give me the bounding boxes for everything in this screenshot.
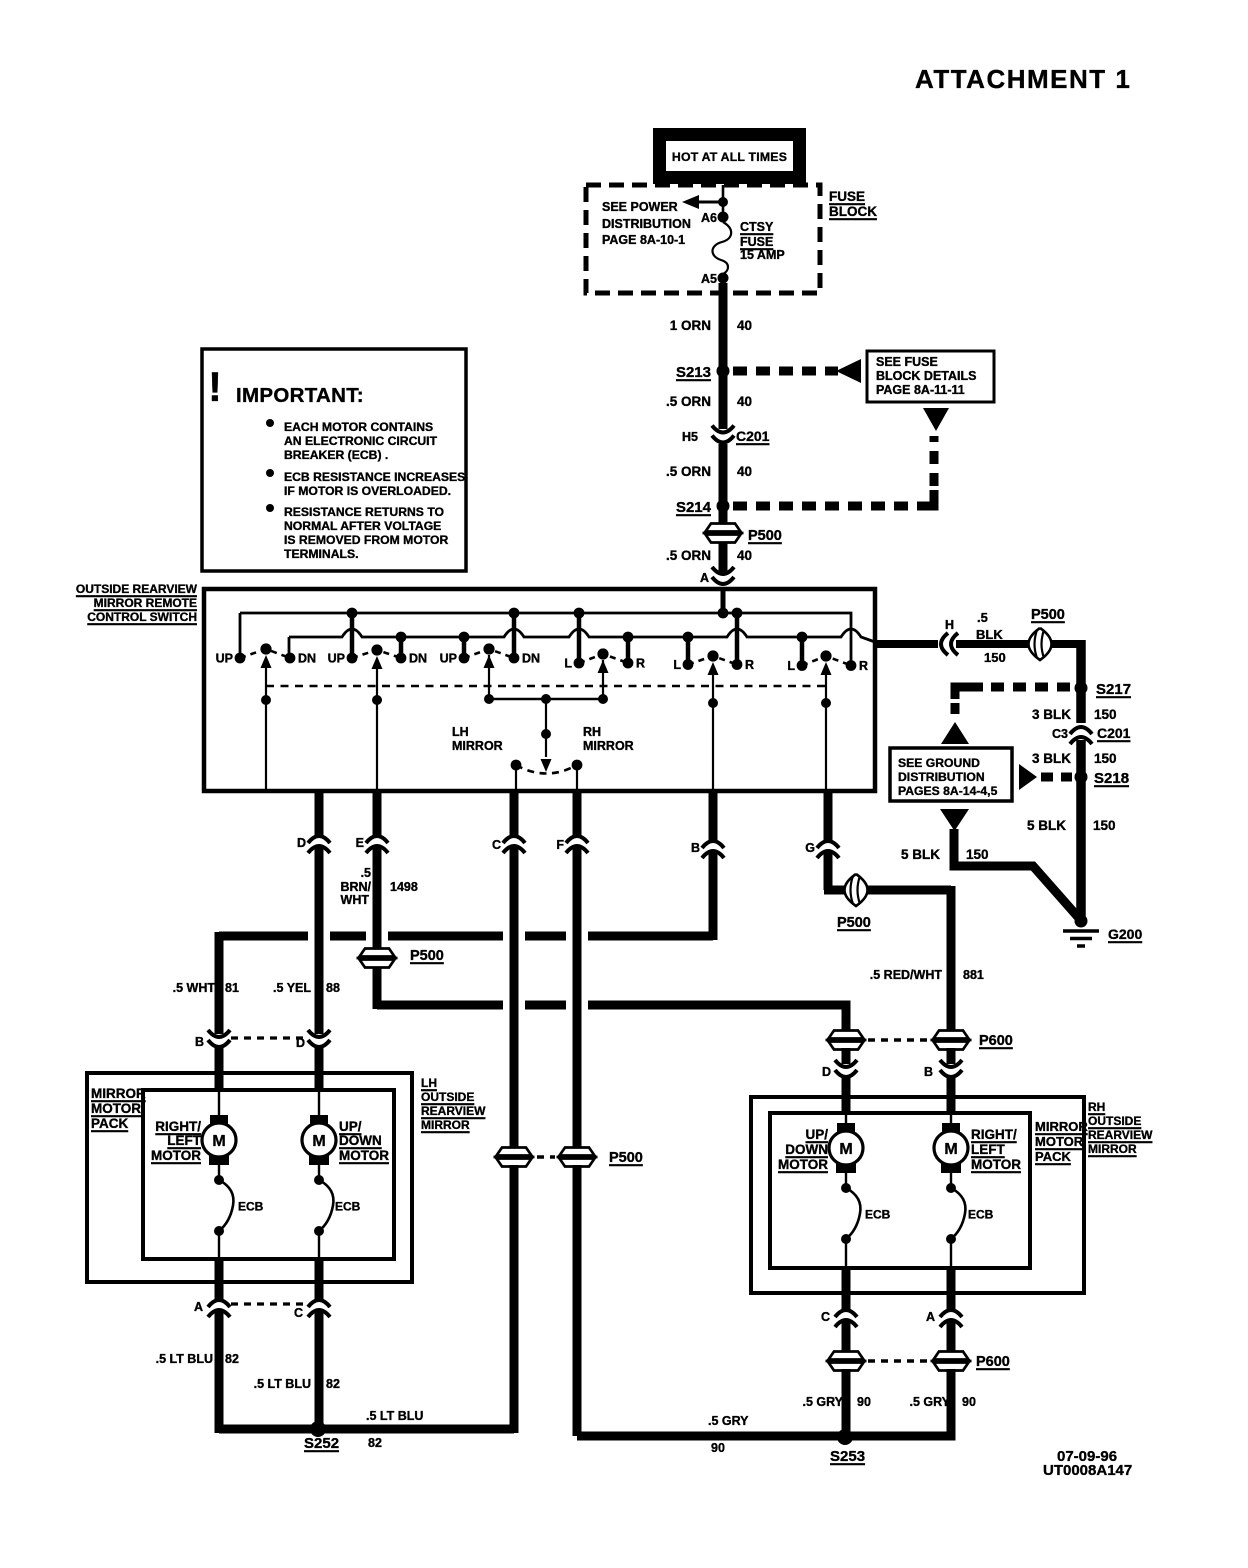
svg-text:DN: DN [298, 652, 316, 666]
svg-text:G: G [805, 841, 815, 855]
svg-text:WHT: WHT [341, 893, 370, 907]
svg-text:BLOCK: BLOCK [829, 204, 877, 219]
svg-text:RH: RH [1088, 1100, 1105, 1114]
svg-text:SEE GROUND: SEE GROUND [898, 756, 980, 770]
svg-text:REARVIEW: REARVIEW [421, 1104, 486, 1118]
svg-text:MIRROR REMOTE: MIRROR REMOTE [94, 596, 197, 610]
svg-text:.5 LT BLU: .5 LT BLU [254, 1377, 311, 1391]
svg-text:MOTOR: MOTOR [151, 1148, 201, 1163]
svg-text:PACK: PACK [91, 1116, 129, 1131]
svg-text:G200: G200 [1108, 926, 1142, 942]
svg-text:C3: C3 [1052, 727, 1068, 741]
svg-text:150: 150 [966, 847, 989, 862]
svg-text:150: 150 [984, 650, 1006, 665]
svg-text:C: C [492, 838, 501, 852]
svg-text:MIRROR: MIRROR [91, 1086, 146, 1101]
svg-text:BLOCK DETAILS: BLOCK DETAILS [876, 369, 976, 383]
svg-text:UP: UP [440, 652, 457, 666]
svg-text:R: R [636, 657, 645, 671]
svg-text:PAGE 8A-11-11: PAGE 8A-11-11 [876, 383, 965, 397]
svg-text:S213: S213 [676, 364, 711, 381]
svg-text:MIRROR: MIRROR [421, 1118, 470, 1132]
svg-text:S218: S218 [1094, 770, 1129, 787]
svg-text:UP: UP [216, 652, 233, 666]
svg-text:40: 40 [737, 464, 752, 479]
svg-text:ECB: ECB [865, 1208, 891, 1222]
svg-text:SEE FUSE: SEE FUSE [876, 355, 938, 369]
svg-text:M: M [212, 1133, 225, 1150]
svg-text:LH: LH [452, 725, 469, 739]
svg-text:BREAKER (ECB) .: BREAKER (ECB) . [284, 448, 388, 462]
svg-text:S217: S217 [1096, 681, 1131, 698]
svg-text:40: 40 [737, 318, 752, 333]
svg-text:A: A [926, 1310, 935, 1324]
svg-text:S253: S253 [830, 1448, 865, 1465]
svg-text:MOTOR: MOTOR [778, 1157, 828, 1172]
svg-text:M: M [839, 1141, 852, 1158]
svg-text:881: 881 [963, 968, 984, 982]
svg-text:ECB RESISTANCE INCREASES: ECB RESISTANCE INCREASES [284, 470, 465, 484]
svg-text:81: 81 [225, 981, 239, 995]
svg-text:M: M [944, 1141, 957, 1158]
svg-text:B: B [691, 841, 700, 855]
svg-text:H: H [945, 618, 954, 632]
svg-text:S252: S252 [304, 1435, 339, 1452]
svg-text:UP: UP [328, 652, 345, 666]
svg-text:UP/: UP/ [805, 1127, 828, 1142]
svg-text:.5 YEL: .5 YEL [273, 981, 311, 995]
svg-text:P600: P600 [976, 1354, 1010, 1370]
svg-text:5 BLK: 5 BLK [901, 847, 940, 862]
svg-text:.5 LT BLU: .5 LT BLU [366, 1409, 423, 1423]
svg-text:C201: C201 [1097, 725, 1131, 741]
svg-text:REARVIEW: REARVIEW [1088, 1128, 1153, 1142]
svg-text:82: 82 [326, 1377, 340, 1391]
svg-text:L: L [564, 657, 572, 671]
svg-text:P500: P500 [748, 528, 782, 544]
svg-text:IS REMOVED FROM MOTOR: IS REMOVED FROM MOTOR [284, 533, 449, 547]
svg-text:BRN/: BRN/ [340, 880, 371, 894]
svg-text:FUSE: FUSE [829, 189, 865, 204]
svg-text:ECB: ECB [968, 1208, 994, 1222]
svg-text:A5: A5 [701, 272, 717, 286]
svg-text:40: 40 [737, 548, 752, 563]
svg-text:NORMAL AFTER VOLTAGE: NORMAL AFTER VOLTAGE [284, 519, 441, 533]
svg-text:OUTSIDE REARVIEW: OUTSIDE REARVIEW [76, 582, 198, 596]
svg-text:MOTOR: MOTOR [339, 1148, 389, 1163]
svg-text:PAGE 8A-10-1: PAGE 8A-10-1 [602, 233, 685, 247]
svg-text:MIRROR: MIRROR [1088, 1142, 1137, 1156]
svg-text:5 BLK: 5 BLK [1027, 818, 1066, 833]
svg-text:150: 150 [1094, 751, 1117, 766]
svg-text:BLK: BLK [976, 627, 1003, 642]
svg-text:B: B [195, 1035, 204, 1049]
svg-text:R: R [859, 659, 868, 673]
svg-text:150: 150 [1093, 818, 1116, 833]
svg-text:.5: .5 [977, 610, 988, 625]
svg-text:C201: C201 [736, 428, 770, 444]
svg-text:C: C [294, 1306, 303, 1320]
svg-text:90: 90 [857, 1395, 871, 1409]
svg-text:S214: S214 [676, 499, 712, 516]
svg-text:FUSE: FUSE [740, 235, 773, 249]
svg-text:.5 GRY: .5 GRY [909, 1395, 950, 1409]
svg-text:DN: DN [409, 652, 427, 666]
svg-text:R: R [745, 658, 754, 672]
svg-text:90: 90 [962, 1395, 976, 1409]
svg-text:A6: A6 [701, 211, 717, 225]
svg-text:SEE POWER: SEE POWER [602, 200, 678, 214]
svg-text:DISTRIBUTION: DISTRIBUTION [602, 217, 691, 231]
svg-text:.5: .5 [361, 866, 371, 880]
svg-text:P500: P500 [837, 915, 871, 931]
svg-text:RESISTANCE RETURNS TO: RESISTANCE RETURNS TO [284, 505, 444, 519]
svg-text:MOTOR: MOTOR [971, 1157, 1021, 1172]
svg-text:DOWN: DOWN [339, 1133, 382, 1148]
svg-text:E: E [356, 836, 364, 850]
svg-text:DISTRIBUTION: DISTRIBUTION [898, 770, 985, 784]
svg-text:DOWN: DOWN [785, 1142, 828, 1157]
svg-text:ECB: ECB [335, 1200, 361, 1214]
svg-text:D: D [297, 836, 306, 850]
svg-text:CTSY: CTSY [740, 220, 774, 234]
svg-text:A: A [194, 1300, 203, 1314]
svg-text:!: ! [208, 363, 222, 410]
svg-text:15 AMP: 15 AMP [740, 248, 785, 262]
svg-text:1 ORN: 1 ORN [670, 318, 711, 333]
svg-text:PAGES 8A-14-4,5: PAGES 8A-14-4,5 [898, 784, 998, 798]
svg-text:ECB: ECB [238, 1200, 264, 1214]
svg-text:3 BLK: 3 BLK [1032, 751, 1071, 766]
svg-text:82: 82 [225, 1352, 239, 1366]
svg-text:MIRROR: MIRROR [452, 739, 503, 753]
svg-text:OUTSIDE: OUTSIDE [421, 1090, 474, 1104]
svg-text:MOTOR: MOTOR [1035, 1134, 1084, 1149]
svg-text:H5: H5 [682, 430, 698, 444]
svg-text:.5 RED/WHT: .5 RED/WHT [870, 968, 943, 982]
svg-text:.5 GRY: .5 GRY [802, 1395, 843, 1409]
svg-text:.5 WHT: .5 WHT [173, 981, 216, 995]
svg-text:MIRROR: MIRROR [1035, 1119, 1088, 1134]
svg-text:1498: 1498 [390, 880, 418, 894]
svg-text:.5 GRY: .5 GRY [708, 1414, 749, 1428]
svg-text:L: L [787, 659, 795, 673]
svg-text:RH: RH [583, 725, 601, 739]
svg-text:RIGHT/: RIGHT/ [155, 1119, 201, 1134]
svg-text:.5 ORN: .5 ORN [666, 464, 711, 479]
svg-text:CONTROL SWITCH: CONTROL SWITCH [87, 610, 197, 624]
svg-text:HOT AT ALL TIMES: HOT AT ALL TIMES [672, 150, 787, 164]
svg-text:82: 82 [368, 1436, 382, 1450]
svg-text:PACK: PACK [1035, 1149, 1071, 1164]
svg-text:EACH MOTOR CONTAINS: EACH MOTOR CONTAINS [284, 420, 433, 434]
svg-text:UP/: UP/ [339, 1119, 362, 1134]
svg-text:3 BLK: 3 BLK [1032, 707, 1071, 722]
svg-text:RIGHT/: RIGHT/ [971, 1127, 1017, 1142]
svg-text:L: L [673, 658, 681, 672]
svg-text:M: M [312, 1133, 325, 1150]
svg-text:ATTACHMENT 1: ATTACHMENT 1 [915, 64, 1131, 94]
svg-text:P500: P500 [609, 1150, 643, 1166]
svg-text:.5 ORN: .5 ORN [666, 548, 711, 563]
svg-text:B: B [924, 1065, 933, 1079]
svg-text:DN: DN [522, 652, 540, 666]
svg-text:.5 LT BLU: .5 LT BLU [156, 1352, 213, 1366]
svg-text:D: D [822, 1065, 831, 1079]
svg-text:OUTSIDE: OUTSIDE [1088, 1114, 1141, 1128]
svg-text:IMPORTANT:: IMPORTANT: [236, 384, 364, 407]
svg-text:P500: P500 [410, 948, 444, 964]
svg-text:40: 40 [737, 394, 752, 409]
svg-text:LEFT: LEFT [971, 1142, 1005, 1157]
svg-text:150: 150 [1094, 707, 1117, 722]
svg-text:TERMINALS.: TERMINALS. [284, 547, 358, 561]
svg-text:MIRROR: MIRROR [583, 739, 634, 753]
svg-text:90: 90 [711, 1441, 725, 1455]
svg-text:F: F [556, 838, 564, 852]
svg-text:IF MOTOR IS OVERLOADED.: IF MOTOR IS OVERLOADED. [284, 484, 451, 498]
svg-text:A: A [700, 571, 709, 585]
svg-text:LEFT: LEFT [167, 1133, 201, 1148]
svg-text:C: C [821, 1310, 830, 1324]
svg-text:88: 88 [326, 981, 340, 995]
svg-text:MOTOR: MOTOR [91, 1101, 141, 1116]
svg-text:UT0008A147: UT0008A147 [1043, 1462, 1132, 1479]
svg-text:LH: LH [421, 1076, 437, 1090]
svg-text:.5 ORN: .5 ORN [666, 394, 711, 409]
svg-text:AN ELECTRONIC CIRCUIT: AN ELECTRONIC CIRCUIT [284, 434, 438, 448]
svg-text:P600: P600 [979, 1033, 1013, 1049]
svg-text:P500: P500 [1031, 607, 1065, 623]
